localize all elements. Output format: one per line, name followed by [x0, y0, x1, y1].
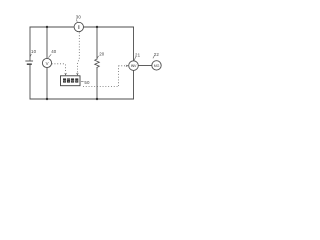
svg-text:40: 40 [51, 49, 57, 54]
svg-text:22: 22 [154, 52, 160, 57]
svg-text:50: 50 [84, 80, 90, 85]
svg-text:30: 30 [76, 15, 82, 20]
svg-text:INV: INV [131, 64, 137, 68]
svg-text:MG: MG [154, 64, 160, 68]
svg-text:10: 10 [31, 49, 37, 54]
svg-text:V: V [46, 61, 49, 66]
svg-text:21: 21 [135, 53, 141, 58]
svg-text:20: 20 [99, 52, 105, 57]
